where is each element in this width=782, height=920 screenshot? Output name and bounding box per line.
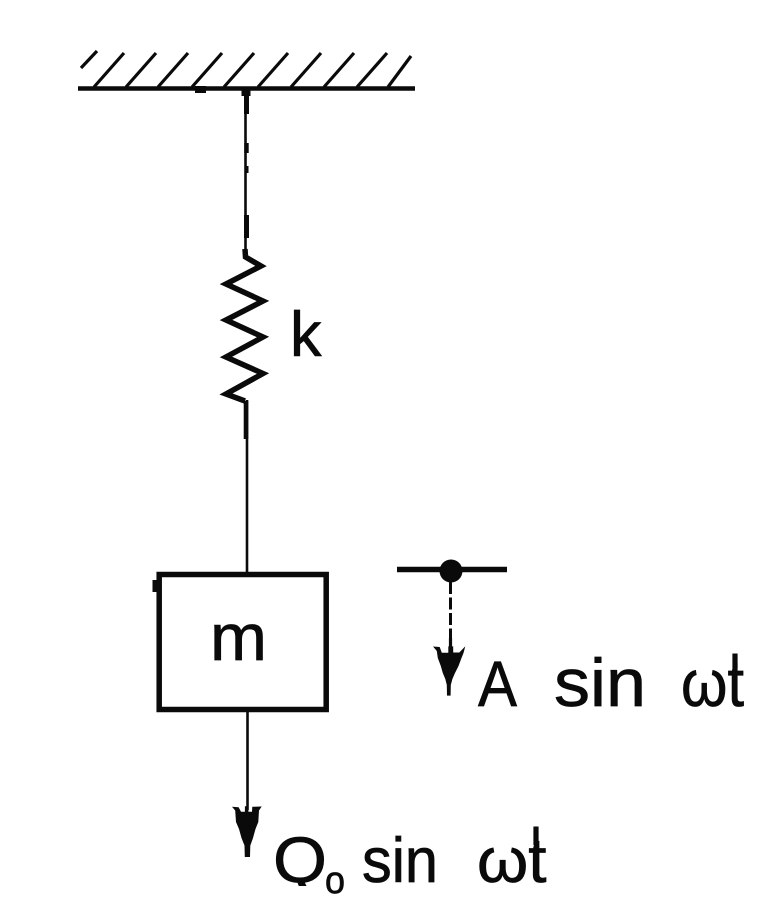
svg-text:A: A (478, 648, 517, 720)
svg-text:sin: sin (554, 645, 646, 721)
svg-text:m: m (210, 600, 267, 674)
svg-text:Q: Q (273, 823, 327, 896)
svg-text:o: o (325, 860, 345, 902)
svg-text:sin: sin (362, 826, 438, 896)
svg-text:k: k (290, 300, 322, 370)
